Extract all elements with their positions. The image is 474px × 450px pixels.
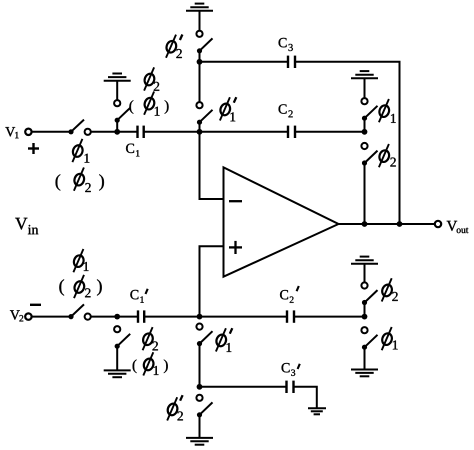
wire output rail bbox=[339, 223, 435, 225]
minus sign at V2 bbox=[30, 304, 41, 306]
node C junction bbox=[362, 129, 368, 135]
label phi2 top-left switch bbox=[143, 67, 156, 90]
ground top-center bbox=[186, 4, 213, 31]
switch phi2 right to output bbox=[361, 143, 377, 224]
node F1 junction (C3 tap) bbox=[197, 59, 203, 65]
switch phi2 bottom-right upper bbox=[361, 282, 377, 316]
label C1' bbox=[130, 290, 138, 299]
label C2' bbox=[280, 290, 288, 299]
label phi1 top series bbox=[71, 139, 84, 162]
wire C3 to output node bbox=[295, 62, 400, 224]
label (phi1) bottom-left switch bbox=[133, 359, 137, 373]
wire V1 to series switch bbox=[32, 131, 71, 133]
switch phi1' bottom-center bbox=[196, 324, 212, 387]
switch S2 phi1(phi2) series bottom bbox=[68, 304, 90, 319]
wire C3' rail bbox=[200, 386, 287, 388]
label C3 bbox=[279, 38, 287, 47]
wire C2' to node G bbox=[294, 316, 365, 318]
wire node B to non-inverting input bbox=[200, 246, 224, 316]
op-amp plus pin bbox=[229, 241, 242, 254]
wire C1' to node B and on to C2' bbox=[144, 316, 287, 318]
switch phi2' bottom-center bbox=[196, 395, 212, 438]
label (phi2) top series bbox=[56, 174, 61, 190]
capacitor C2 bbox=[288, 126, 295, 138]
node F2 junction (C3' tap) bbox=[197, 384, 203, 390]
capacitor C1 bbox=[138, 126, 144, 138]
terminal V2 bbox=[25, 313, 31, 319]
label V1 bbox=[5, 127, 15, 136]
junction top-left node bbox=[114, 129, 120, 135]
wire node A to inverting input bbox=[200, 132, 224, 199]
label C1 bbox=[126, 144, 134, 153]
switch phi1 top-right bbox=[361, 98, 377, 132]
node G junction bbox=[362, 314, 368, 320]
ground bottom-center bbox=[186, 438, 213, 445]
label phi2' bottom-center switch bbox=[166, 397, 179, 420]
wire C3 rail bbox=[200, 61, 289, 63]
wire C2 to node C bbox=[295, 131, 365, 133]
label V2 bbox=[10, 310, 20, 319]
ground C3' bbox=[308, 408, 326, 414]
ground right-mid bbox=[351, 257, 378, 283]
capacitor C1' bbox=[138, 310, 144, 322]
label C2 bbox=[279, 104, 287, 113]
wire switch to C1' bbox=[91, 316, 138, 318]
wire switch to C1 bbox=[91, 131, 137, 133]
label C3' bbox=[282, 363, 290, 372]
switch phi2(phi1) top-left to ground bbox=[114, 100, 130, 132]
wire C1 to node A and on to C2 bbox=[144, 131, 288, 133]
switch phi1 bottom-right lower bbox=[361, 327, 377, 369]
switch phi2' top-center bbox=[196, 31, 212, 62]
label phi1' bottom-center switch bbox=[215, 328, 228, 351]
label phi1 bottom-right switch bbox=[381, 327, 394, 350]
junction bottom-left node bbox=[114, 314, 120, 320]
label phi2 bottom-right switch bbox=[381, 278, 394, 301]
op-amp minus pin bbox=[229, 200, 242, 202]
switch S1 phi1(phi2) series top bbox=[68, 120, 90, 135]
label (phi2) bottom series bbox=[59, 279, 64, 295]
label phi1 top-right switch bbox=[378, 99, 391, 122]
ground bottom-right bbox=[351, 370, 378, 377]
terminal V1 bbox=[25, 129, 31, 135]
capacitor C3' bbox=[287, 381, 294, 393]
node A junction bbox=[197, 129, 203, 135]
terminal Vout bbox=[435, 221, 441, 227]
switch phi2(phi1) bottom-left to ground bbox=[114, 326, 130, 370]
label phi2 bottom-left switch bbox=[142, 327, 155, 350]
ground bottom-left bbox=[104, 370, 131, 377]
ground top-left bbox=[104, 74, 131, 100]
capacitor C2' bbox=[287, 310, 294, 322]
label phi2 right switch bbox=[378, 144, 391, 167]
node E junction on output bbox=[397, 221, 403, 227]
label (phi1) top-left switch bbox=[129, 100, 133, 114]
label Vin bbox=[15, 218, 27, 230]
label phi2' top-center switch bbox=[165, 35, 178, 58]
label Vout bbox=[447, 221, 457, 231]
node D junction on output bbox=[362, 221, 368, 227]
ground top-right bbox=[351, 71, 378, 98]
switch phi1' center bbox=[196, 102, 212, 132]
label phi1' center switch bbox=[219, 97, 232, 120]
op-amp U1 bbox=[224, 167, 339, 276]
capacitor C3 bbox=[288, 56, 295, 68]
label phi1 bottom series bbox=[72, 249, 85, 272]
plus sign at V1 bbox=[28, 143, 39, 154]
node B junction bbox=[197, 314, 203, 320]
wire C3' to ground bbox=[294, 387, 317, 408]
wire node F1 down to switch bbox=[199, 62, 201, 102]
wire V2 to series switch bbox=[32, 316, 71, 318]
